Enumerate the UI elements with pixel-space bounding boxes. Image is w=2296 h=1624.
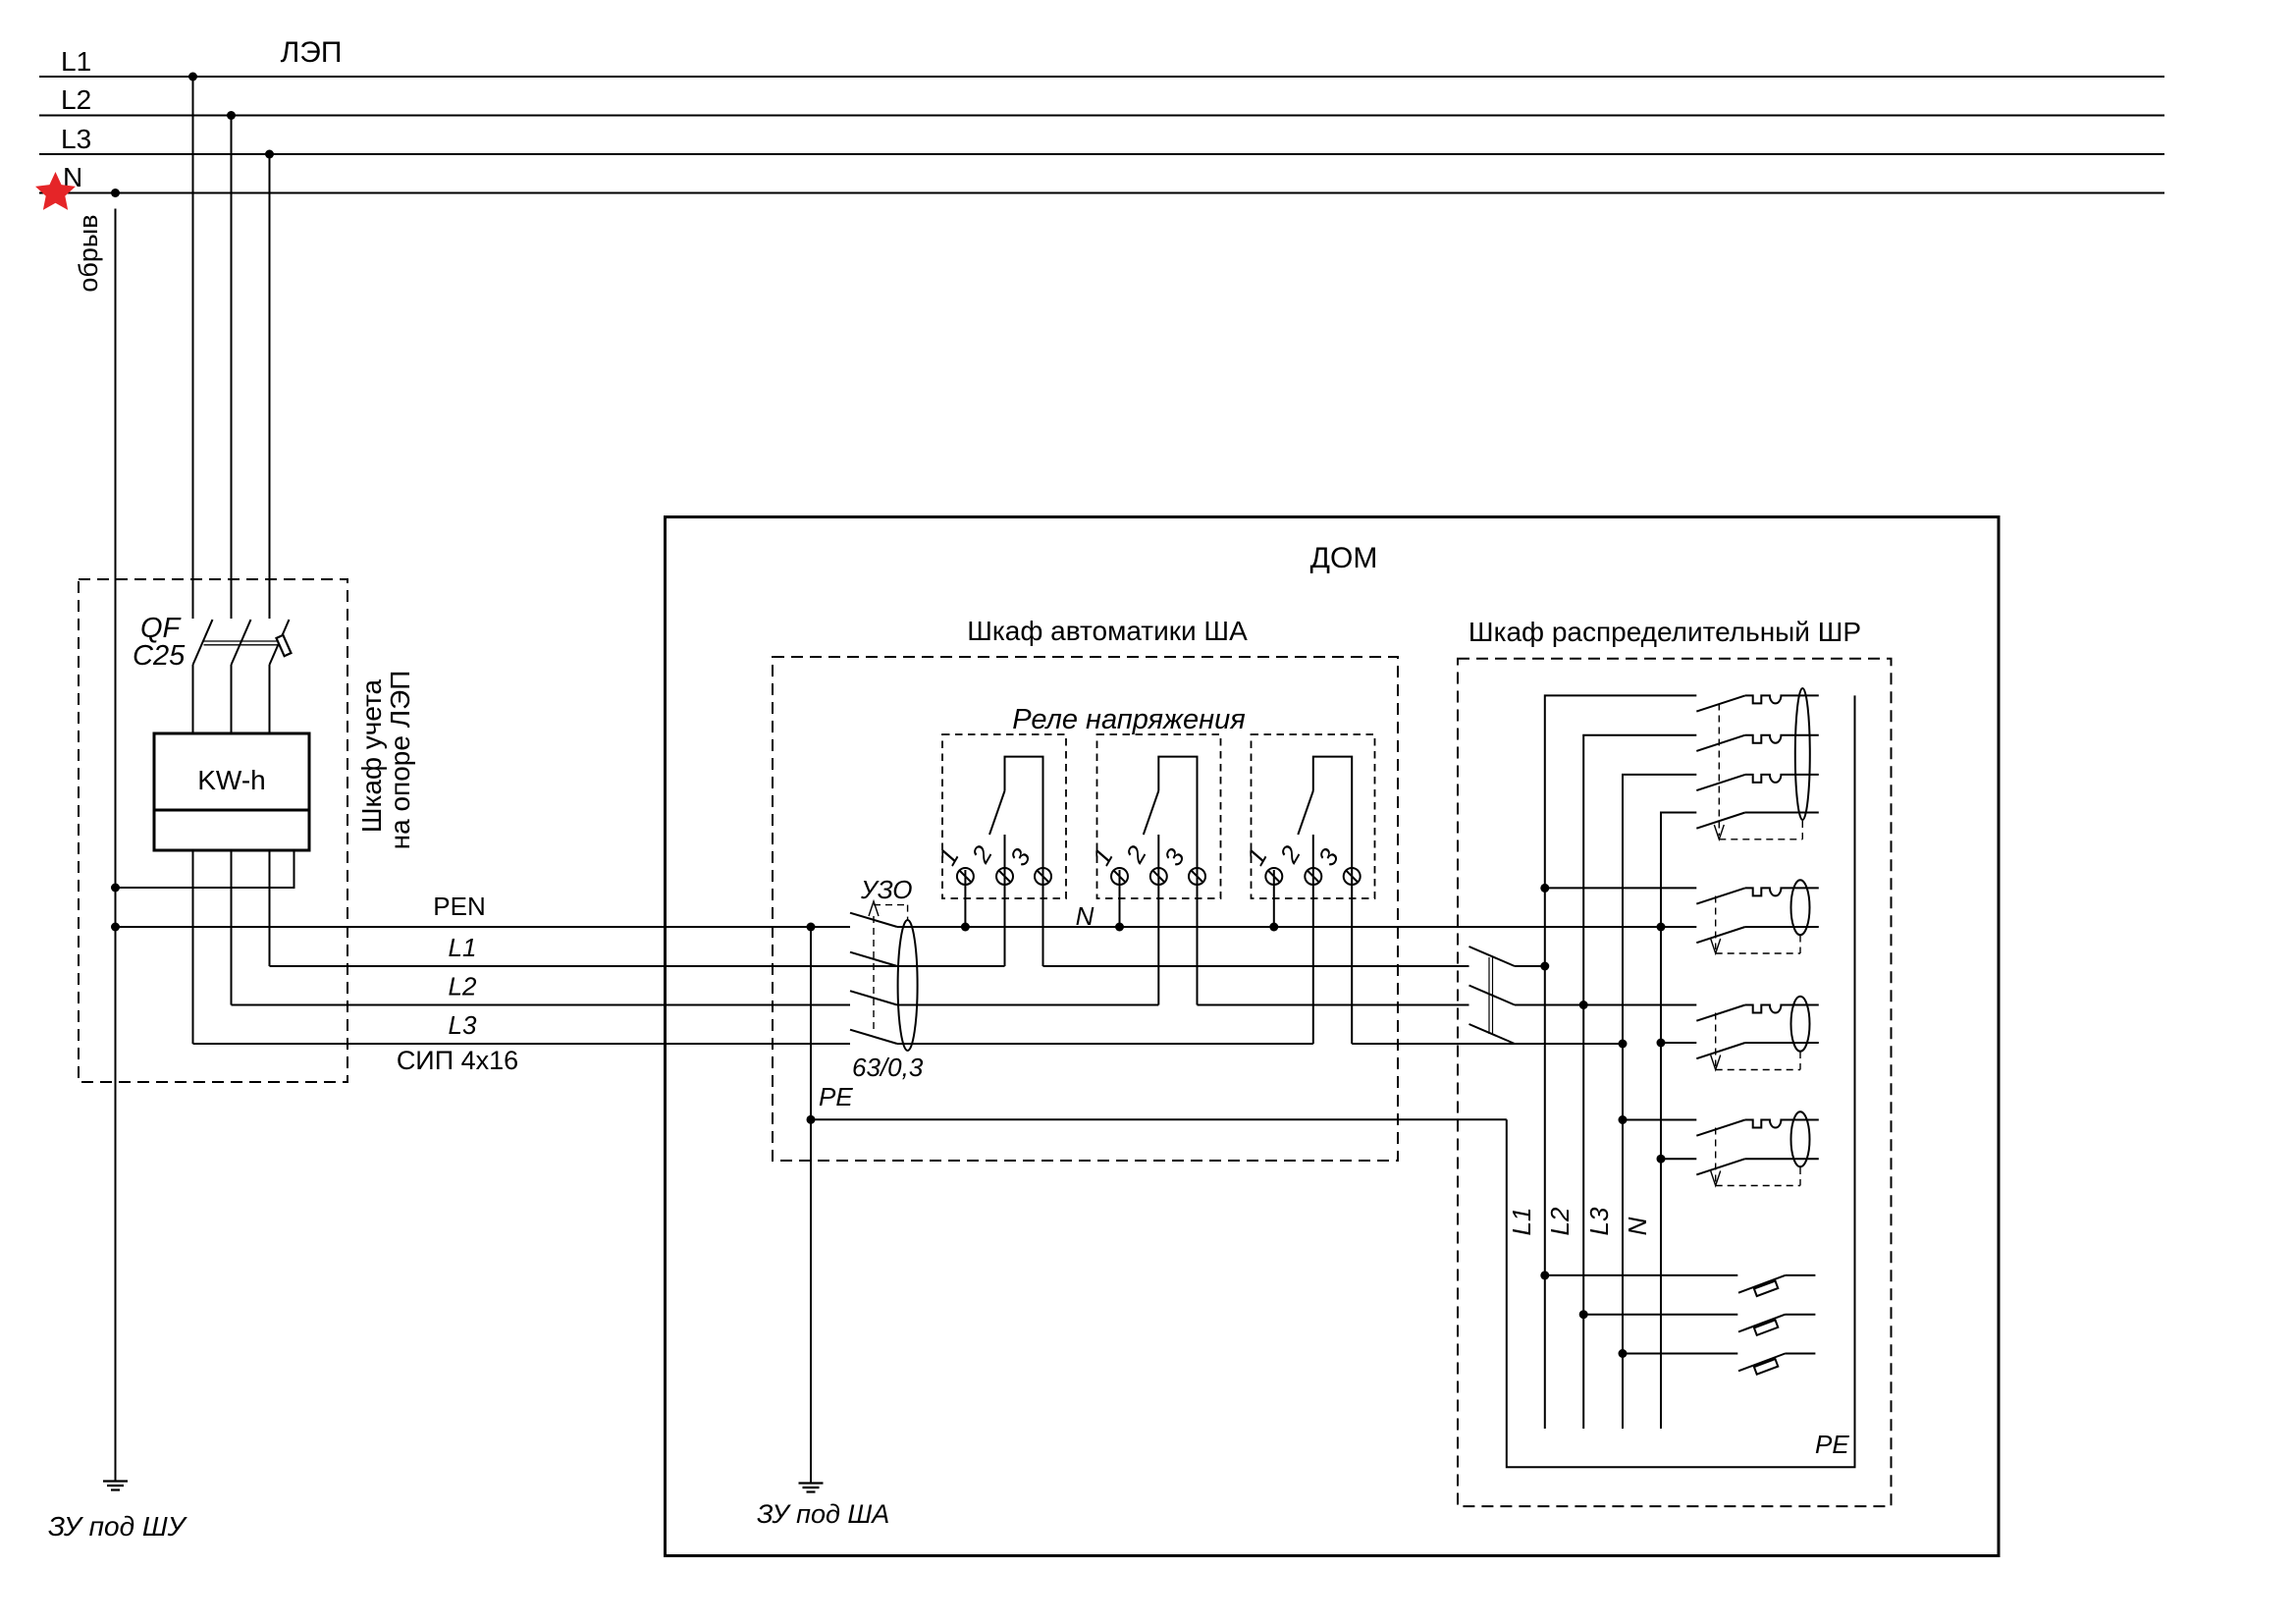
RCD UZO symbol <box>850 913 918 1051</box>
wire meter L3 output down <box>192 850 194 1044</box>
input switch blade L1 <box>1469 947 1516 966</box>
wire L3 line from meter to relay3 <box>193 1043 851 1045</box>
svg-text:ДОМ: ДОМ <box>1310 542 1378 574</box>
svg-text:обрыв: обрыв <box>74 214 103 292</box>
relay2 terminal3 wire <box>1197 868 1199 1005</box>
svg-text:63/0,3: 63/0,3 <box>852 1053 924 1082</box>
wire N line inside ShA <box>897 926 1661 928</box>
UZO blade pole PEN <box>850 913 897 927</box>
wire QF pole1 to meter <box>192 665 194 733</box>
wire L3 tap down <box>269 154 271 619</box>
relay3 contact flag <box>1313 757 1352 868</box>
group4 row N wire <box>1661 1158 1696 1160</box>
node fused switch L1 tap <box>1540 1271 1549 1279</box>
UZO linkage dashed with arrow <box>869 901 908 1033</box>
breaker QF pole 3 release flag <box>277 635 292 656</box>
voltage relay 3 <box>1241 734 1375 1044</box>
breaker QF pole 3 blade <box>270 620 290 665</box>
group4 linkage dashed with arrow <box>1711 1128 1800 1186</box>
group3 linkage dashed with arrow <box>1711 1013 1800 1070</box>
relay2 terminal circles <box>1111 868 1128 885</box>
UZO blade pole L3 <box>850 1030 897 1044</box>
svg-text:L2: L2 <box>61 84 91 115</box>
meter KW-h box <box>154 733 309 850</box>
svg-text:ЗУ под ШУ: ЗУ под ШУ <box>48 1511 188 1542</box>
wire N power line <box>39 192 2164 194</box>
breaker group 3 (L2+N RCBO) <box>1583 997 1819 1059</box>
metering cabinet dashed box (Shkaf ucheta) <box>79 579 347 1082</box>
group2 trip elements L1 <box>1745 888 1819 895</box>
svg-text:Шкаф автоматики ША: Шкаф автоматики ША <box>967 616 1248 646</box>
wire L1 out of relay1 to ShR <box>1043 965 1469 967</box>
breaker group 4 (L3+N RCBO) <box>1623 1111 1819 1174</box>
PE bus rectangle in ShR <box>1507 695 1855 1467</box>
relay3 terminal3 wire <box>1351 868 1353 1044</box>
group3 blade N <box>1696 1043 1745 1058</box>
svg-text:ЗУ под ША: ЗУ под ША <box>757 1499 889 1529</box>
relay3 dashed box <box>1252 734 1375 898</box>
input switch 3-pole in ShR <box>1469 947 1516 1044</box>
group2 row L1 wire <box>1545 887 1697 889</box>
node fused switch L2 tap <box>1579 1310 1588 1319</box>
UZO blade pole L1 <box>850 952 897 966</box>
house DOM box <box>666 517 2000 1556</box>
ground ZU pod ShA <box>799 1484 824 1492</box>
wire meter L2 output down <box>231 850 233 1005</box>
wire L2 line from meter to relay2 <box>232 1004 851 1006</box>
svg-text:L2: L2 <box>449 972 477 1001</box>
wire meter L1 output down <box>269 850 271 966</box>
relay1 terminal2 wire <box>1004 835 1006 966</box>
group4 trip elements L3 <box>1745 1120 1819 1128</box>
group1 blade L2 <box>1696 735 1745 751</box>
input switch linkage bar <box>1489 957 1493 1034</box>
svg-text:PE: PE <box>1815 1430 1849 1459</box>
wire PEN line <box>116 926 851 928</box>
group2 N pole wire <box>1745 926 1819 928</box>
voltage relay 2 <box>1087 734 1221 1005</box>
group1 trip elements L1 <box>1745 695 1819 703</box>
svg-text:KW-h: KW-h <box>197 765 266 795</box>
group3 blade L2 <box>1696 1005 1745 1021</box>
relay1 dashed box <box>942 734 1066 898</box>
breaker group 2 (L1+N RCBO) <box>1545 880 1819 943</box>
ground ZU pod ShU <box>103 1482 128 1490</box>
node group2 L1 tap <box>1540 884 1549 893</box>
group2 blade N <box>1696 927 1745 943</box>
UZO toroid ellipse <box>898 920 918 1051</box>
wire meter PEN stub <box>116 850 294 888</box>
svg-text:L3: L3 <box>61 124 91 154</box>
svg-text:Шкаф распределительный ШР: Шкаф распределительный ШР <box>1468 617 1861 647</box>
wire QF pole3 to meter <box>269 665 271 733</box>
wire L1 power line <box>39 76 2164 78</box>
wire L2 out of relay2 to ShR <box>1198 1004 1469 1006</box>
group1 toroid ellipse <box>1795 688 1810 820</box>
group1 linkage dashed with arrow <box>1714 704 1802 839</box>
svg-text:N: N <box>1076 901 1095 931</box>
breaker QF linkage crossbar <box>204 641 280 645</box>
relay2 dashed box <box>1097 734 1221 898</box>
voltage relay 1 <box>933 734 1066 966</box>
relay3 contact blade <box>1298 791 1313 836</box>
node group4 N tap <box>1657 1155 1666 1164</box>
svg-text:Реле напряжения: Реле напряжения <box>1012 704 1245 735</box>
breaker group 1 (3-phase RCBO) <box>1696 688 1819 829</box>
breaker QF pole 1 blade <box>193 620 213 665</box>
node L3 feed to bus <box>1619 1040 1628 1049</box>
group1 trip elements L3 <box>1745 775 1819 783</box>
group1 blade N <box>1696 813 1745 829</box>
group3 row N wire <box>1661 1042 1696 1044</box>
node PEN stub junction <box>111 884 120 893</box>
group2 linkage dashed with arrow <box>1711 896 1800 954</box>
relay3 terminal1 wire <box>1273 870 1275 927</box>
relay1 terminal1 wire <box>964 870 966 927</box>
svg-text:ЛЭП: ЛЭП <box>281 36 343 69</box>
bus L3 vertical <box>1623 775 1696 1429</box>
svg-text:PEN: PEN <box>433 892 485 921</box>
group1 N pole wire <box>1745 812 1819 814</box>
group2 row N wire <box>1661 926 1696 928</box>
breaker QF pole 2 blade <box>232 620 251 665</box>
UZO blade pole L2 <box>850 991 897 1004</box>
svg-text:Шкаф учета: Шкаф учета <box>356 678 387 833</box>
node L2 tap <box>227 111 236 120</box>
svg-text:УЗО: УЗО <box>860 875 913 904</box>
input switch blade L3 <box>1469 1024 1516 1044</box>
node N tap <box>111 189 120 197</box>
relay1 contact blade <box>989 791 1005 836</box>
group3 toroid ellipse <box>1791 997 1810 1052</box>
wire L2 tap down <box>231 116 233 620</box>
node PE tap on PEN <box>807 923 816 932</box>
group3 N pole wire <box>1745 1042 1819 1044</box>
group1 trip elements L2 <box>1745 735 1819 743</box>
node L2 feed to bus <box>1579 1001 1588 1009</box>
svg-text:L3: L3 <box>449 1010 477 1040</box>
wire QF pole2 to meter <box>231 665 233 733</box>
distribution cabinet ShR dashed box <box>1458 659 1892 1506</box>
svg-text:на опоре ЛЭП: на опоре ЛЭП <box>385 671 415 850</box>
wire PE horizontal to ShR <box>811 1118 1507 1120</box>
relay2 terminal2 wire <box>1157 835 1159 1005</box>
group1 blade L1 <box>1696 695 1745 711</box>
wire L1 line from meter to relay1 <box>270 965 1005 967</box>
fused switch row 2 (L2) <box>1583 1315 1815 1335</box>
relay2 contact flag <box>1158 757 1197 868</box>
node L3 tap <box>265 150 274 159</box>
group3 row L2 wire <box>1583 1004 1696 1006</box>
relay3 terminal2 wire <box>1312 835 1314 1044</box>
node relay1 t1 on N <box>961 923 970 932</box>
svg-text:L3: L3 <box>1584 1207 1614 1235</box>
wire L3 out of relay3 to ShR <box>1352 1043 1623 1045</box>
bus L1 vertical <box>1545 695 1697 1429</box>
svg-text:L1: L1 <box>449 933 477 962</box>
node group4 L3 tap <box>1619 1115 1628 1124</box>
svg-text:L2: L2 <box>1545 1207 1575 1235</box>
relay1 terminal3 wire <box>1042 868 1044 966</box>
bus N vertical <box>1661 813 1696 1430</box>
relay2 terminal1 wire <box>1119 870 1121 927</box>
wire L3 power line <box>39 153 2164 155</box>
group1 blade L3 <box>1696 775 1745 790</box>
group4 toroid ellipse <box>1791 1111 1810 1166</box>
relay2 contact blade <box>1144 791 1159 836</box>
fused switch row 3 (L3) <box>1623 1354 1815 1375</box>
node PEN junction at N drop <box>111 923 120 932</box>
group3 trip elements L2 <box>1745 1005 1819 1013</box>
automation cabinet ShA dashed box <box>773 657 1398 1161</box>
svg-text:L1: L1 <box>61 46 91 77</box>
relay1 terminal circles <box>957 868 974 885</box>
node L1 feed to bus <box>1540 962 1549 971</box>
group2 toroid ellipse <box>1791 880 1810 935</box>
svg-text:N: N <box>1623 1217 1652 1235</box>
relay3 terminal circles <box>1265 868 1282 885</box>
bus L2 vertical <box>1583 735 1696 1429</box>
fault star marker <box>35 172 76 210</box>
svg-text:PE: PE <box>819 1082 853 1111</box>
wire switch L2 to bus <box>1515 1004 1583 1006</box>
node PE corner junction <box>807 1115 816 1124</box>
svg-text:C25: C25 <box>133 640 186 672</box>
node N feed to bus <box>1657 923 1666 932</box>
wire switch L3 to bus <box>1515 1043 1623 1045</box>
input switch blade L2 <box>1469 986 1516 1005</box>
group4 row L3 wire <box>1623 1119 1696 1121</box>
wire L2 power line <box>39 115 2164 117</box>
fused switch row 1 (L1) <box>1545 1275 1816 1296</box>
svg-text:L1: L1 <box>1507 1208 1536 1236</box>
node relay2 t1 on N <box>1115 923 1124 932</box>
group4 blade L3 <box>1696 1120 1745 1136</box>
group4 blade N <box>1696 1159 1745 1174</box>
group2 blade L1 <box>1696 888 1745 903</box>
relay1 contact flag <box>1005 757 1043 868</box>
wire PE drop from PEN <box>810 927 812 1483</box>
wire N tap down with break gap <box>115 209 117 1482</box>
group4 N pole wire <box>1745 1158 1819 1160</box>
node group3 N tap <box>1657 1039 1666 1048</box>
node fused switch L3 tap <box>1619 1349 1628 1358</box>
wire switch L1 to bus <box>1515 965 1545 967</box>
wire L1 tap down <box>192 77 194 619</box>
node L1 tap <box>188 73 197 81</box>
svg-text:СИП 4х16: СИП 4х16 <box>397 1046 518 1075</box>
node relay3 t1 on N <box>1269 923 1278 932</box>
